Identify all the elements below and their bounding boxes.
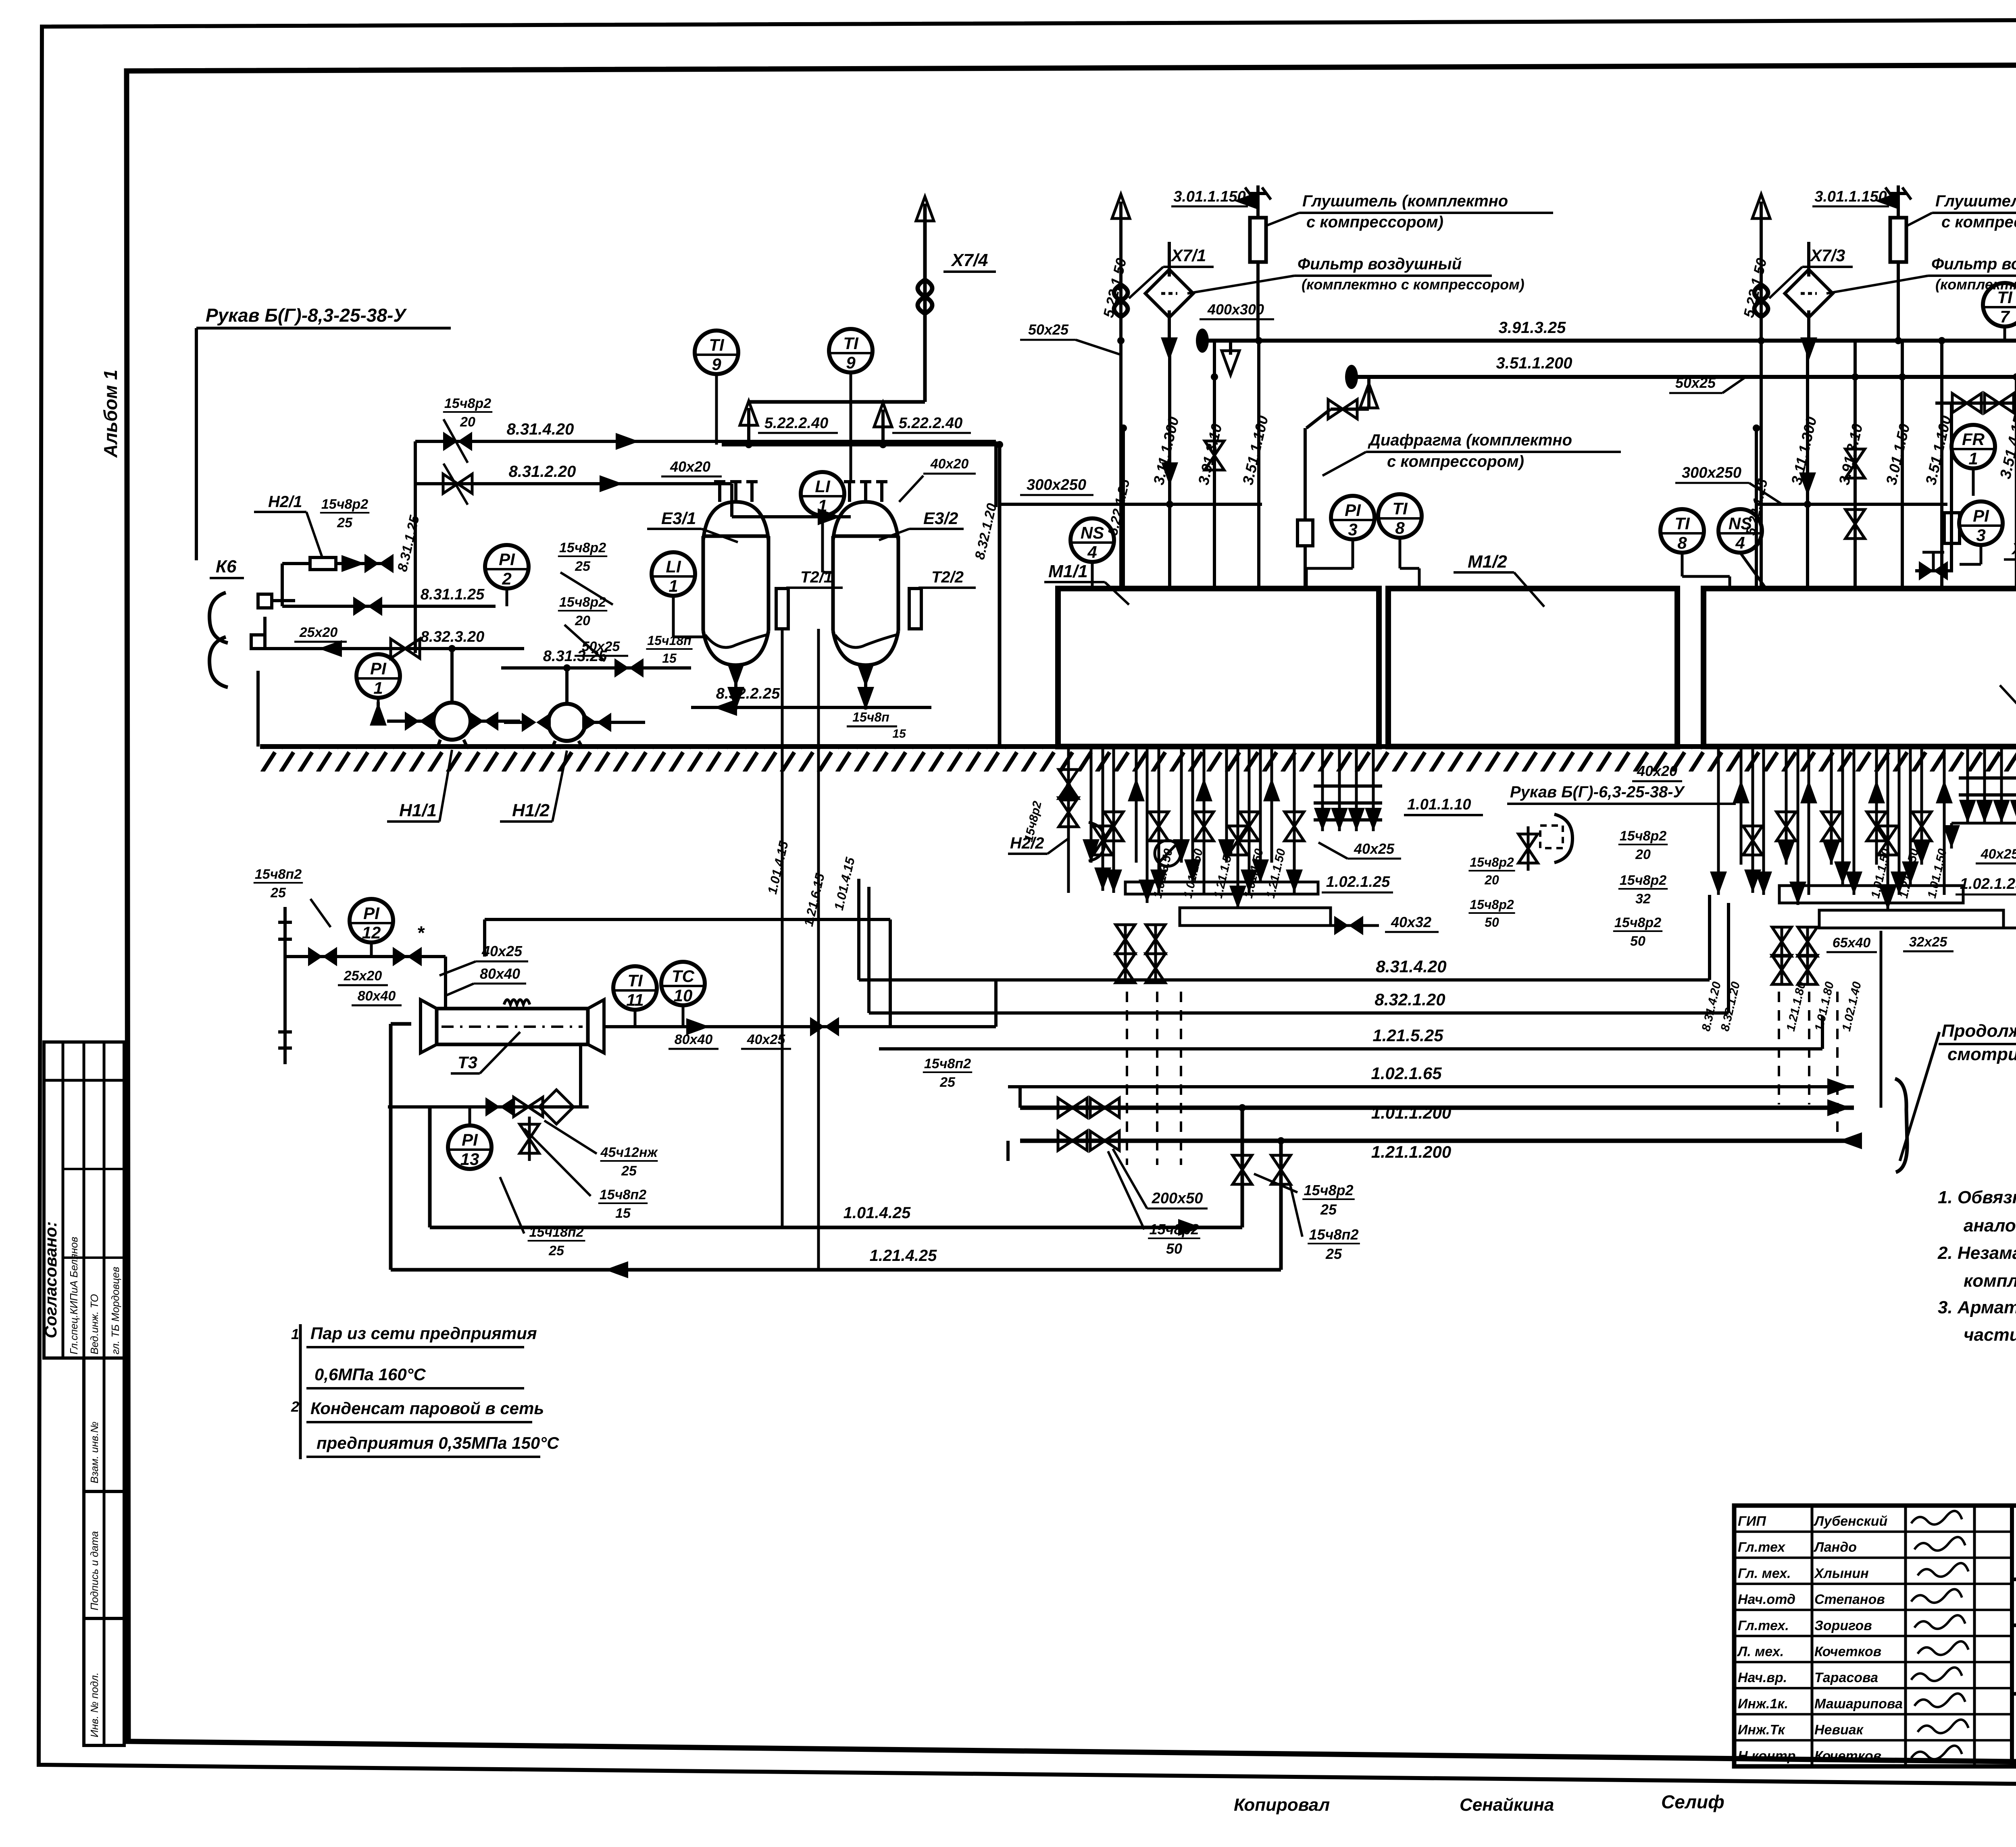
svg-text:М1/1: М1/1: [1048, 562, 1088, 581]
svg-text:Вед.инж. ТО: Вед.инж. ТО: [88, 1294, 100, 1354]
svg-text:Конденсат паровой в сеть: Конденсат паровой в сеть: [310, 1399, 544, 1418]
svg-text:PI: PI: [1973, 506, 1989, 525]
svg-text:1.01.1.50: 1.01.1.50: [1181, 847, 1206, 900]
gauge small circle: [1155, 840, 1181, 866]
thermo TI8: [1378, 494, 1422, 538]
svg-text:Ландо: Ландо: [1813, 1540, 1857, 1555]
svg-text:8: 8: [1677, 533, 1687, 552]
steam line to T3: [285, 955, 446, 958]
svg-text:3: 3: [1976, 526, 1985, 545]
svg-text:Зоригов: Зоригов: [1814, 1618, 1872, 1633]
grid manifold 1.02.1.10: [1966, 747, 1969, 823]
pipe 8.32.2.25 from vessels to pumps: [691, 706, 931, 709]
svg-text:25: 25: [270, 885, 286, 901]
dashed drains down: [1126, 992, 1128, 1165]
pipe 1.21.4.25: [391, 1268, 1281, 1272]
svg-text:1. Обвязку компрессора поз.: 1. Обвязку компрессора поз. М1/2 выполни…: [1938, 1188, 2016, 1207]
pump H1/1: [433, 703, 471, 740]
M1/3 left instruments: [1660, 509, 1704, 553]
svg-text:15ч8р2: 15ч8р2: [559, 595, 606, 610]
svg-text:1.01.4.15: 1.01.4.15: [831, 855, 858, 911]
svg-text:4: 4: [1735, 533, 1745, 552]
gauge PI2: [485, 545, 529, 589]
svg-text:1.21.1.200: 1.21.1.200: [1371, 1142, 1452, 1161]
svg-text:Инж.Тк: Инж.Тк: [1738, 1722, 1785, 1738]
svg-text:Тарасова: Тарасова: [1814, 1670, 1878, 1685]
svg-text:15: 15: [892, 727, 906, 740]
svg-text:15ч8п2: 15ч8п2: [600, 1187, 646, 1202]
pipe 8.31.3.25: [501, 666, 653, 670]
svg-text:1.01.4.15: 1.01.4.15: [765, 839, 791, 895]
svg-text:Х7/3: Х7/3: [1810, 246, 1845, 265]
riser 5.22.1.50 with muffler X7/3: [1760, 202, 1763, 589]
svg-text:25х20: 25х20: [344, 968, 382, 984]
M1/3 risers: [1806, 339, 1809, 589]
svg-text:65х40: 65х40: [1833, 935, 1871, 951]
document control boxes (left margin): [84, 1358, 124, 1745]
svg-text:PI: PI: [499, 550, 515, 569]
svg-text:1.21.1.50: 1.21.1.50: [1264, 847, 1288, 900]
svg-text:Машарипова: Машарипова: [1814, 1696, 1903, 1712]
svg-text:25: 25: [939, 1075, 956, 1090]
svg-text:1.01.4.25: 1.01.4.25: [843, 1204, 911, 1222]
svg-text:5.22.2.40: 5.22.2.40: [764, 415, 828, 432]
double valves to drains: [1124, 926, 1127, 984]
svg-text:15ч8п: 15ч8п: [852, 710, 889, 724]
thermo TI11: [613, 966, 657, 1010]
suction duct 300x250 right: [1758, 503, 1947, 506]
level indicator LI1 on E3/1: [652, 552, 695, 596]
svg-text:3.91.3.10: 3.91.3.10: [1195, 422, 1225, 487]
svg-text:Нач.отд: Нач.отд: [1738, 1592, 1795, 1607]
svg-text:К6: К6: [216, 557, 237, 576]
approval stamp table (left margin): [44, 1042, 124, 1358]
pipe 1.01.1.200: [1020, 1106, 1854, 1110]
svg-text:15ч8п2: 15ч8п2: [924, 1056, 971, 1071]
svg-text:Пар из сети предприятия: Пар из сети предприятия: [310, 1324, 537, 1343]
svg-text:Фильтр воздушный: Фильтр воздушный: [1297, 255, 1462, 273]
svg-text:Х3: Х3: [2011, 540, 2016, 558]
svg-text:20: 20: [1484, 873, 1499, 887]
svg-text:Хлынин: Хлынин: [1814, 1566, 1869, 1581]
svg-text:Х7/4: Х7/4: [950, 250, 988, 270]
loop down-left: [389, 1024, 393, 1270]
discharge/drain manifold under M1/1: [1067, 747, 1070, 893]
svg-text:200х50: 200х50: [1152, 1190, 1203, 1207]
svg-text:50х25: 50х25: [1675, 374, 1716, 391]
svg-text:LI: LI: [666, 557, 681, 576]
riser 5.22.1.25: [1122, 428, 1125, 589]
svg-text:3: 3: [1348, 520, 1357, 539]
svg-text:25: 25: [621, 1163, 637, 1179]
svg-text:Е3/1: Е3/1: [661, 509, 696, 528]
svg-text:1.02.1.25: 1.02.1.25: [1960, 876, 2016, 892]
pipe 3.51.1.200: [1352, 375, 2016, 379]
svg-text:25: 25: [1325, 1246, 1342, 1262]
svg-text:32: 32: [1635, 891, 1651, 907]
svg-text:Т3: Т3: [458, 1053, 477, 1072]
svg-text:Т2/2: Т2/2: [931, 568, 964, 586]
junction dots: [1117, 337, 1125, 344]
svg-text:5.22.2.40: 5.22.2.40: [899, 415, 962, 432]
svg-text:Глушитель (комплектно: Глушитель (комплектно: [1935, 192, 2016, 210]
level indicator LI1 on E3/2: [801, 472, 844, 516]
svg-text:1: 1: [669, 576, 678, 595]
svg-text:3.51.1.100: 3.51.1.100: [1239, 414, 1271, 487]
svg-text:15ч8р2: 15ч8р2: [1614, 915, 1661, 930]
svg-text:3. Арматура со знаком * пр: 3. Арматура со знаком * предусмотрена в: [1938, 1298, 2016, 1317]
svg-text:8.31.2.20: 8.31.2.20: [509, 463, 576, 480]
svg-text:предприятия 0,35МПа 150°С: предприятия 0,35МПа 150°С: [317, 1433, 559, 1452]
svg-text:Кочетков: Кочетков: [1814, 1644, 1881, 1660]
svg-text:TI: TI: [1392, 499, 1408, 518]
svg-text:Лубенский: Лубенский: [1813, 1514, 1888, 1529]
gauge PI1: [356, 654, 400, 698]
control valve w/ actuator: [1919, 561, 1948, 580]
svg-text:Взам. инв.№: Взам. инв.№: [88, 1421, 100, 1483]
riser 5.22.1.50 with muffler X7/1: [1119, 202, 1123, 589]
gauge PI3: [1331, 496, 1375, 539]
svg-text:8.31.1.25: 8.31.1.25: [421, 586, 485, 603]
svg-text:50х25: 50х25: [1028, 321, 1069, 338]
svg-text:Согласовано:: Согласовано:: [41, 1221, 60, 1338]
relief arrows 5.22.2.40: [747, 408, 750, 445]
svg-text:Подпись и дата: Подпись и дата: [88, 1531, 100, 1610]
svg-text:15: 15: [662, 651, 677, 666]
pipe 8.32.1.20 (long): [869, 1011, 1729, 1015]
svg-text:3.01.1.150: 3.01.1.150: [1814, 188, 1887, 205]
svg-text:Продолжение трубопроводов: Продолжение трубопроводов: [1941, 1021, 2016, 1041]
extra drain stubs under M1/1: [1102, 747, 1104, 891]
svg-text:с компрессором): с компрессором): [1387, 453, 1524, 470]
svg-text:0,6МПа 160°С: 0,6МПа 160°С: [314, 1365, 426, 1384]
svg-text:Сенайкина: Сенайкина: [1460, 1795, 1554, 1815]
svg-text:9: 9: [846, 353, 856, 372]
vessel E3/2: [833, 502, 898, 540]
pipe 8.31.2.20: [415, 482, 732, 485]
svg-text:40х32: 40х32: [1391, 914, 1431, 930]
svg-text:Инв. № подл.: Инв. № подл.: [88, 1672, 100, 1737]
svg-text:15ч8п2: 15ч8п2: [255, 867, 302, 882]
svg-text:15ч8п2: 15ч8п2: [1309, 1226, 1358, 1243]
svg-text:Т2/1: Т2/1: [800, 568, 833, 586]
vessel top header lower line: [722, 443, 1000, 447]
M1/1 risers: [1168, 339, 1171, 589]
svg-text:ГИП: ГИП: [1738, 1514, 1766, 1529]
svg-text:PI: PI: [370, 659, 387, 678]
svg-text:7: 7: [2000, 307, 2010, 326]
regulator column X3: [1950, 403, 1953, 572]
pipe 8.31.4.20 (long): [859, 978, 1710, 982]
muffler right: [1890, 218, 1906, 262]
gauge PI13: [448, 1125, 492, 1169]
svg-text:1: 1: [373, 678, 383, 697]
svg-text:Гл.тех.: Гл.тех.: [1738, 1618, 1789, 1633]
svg-text:Н2/1: Н2/1: [268, 493, 302, 511]
pipe 8.31.4.20: [415, 440, 996, 443]
svg-text:TI: TI: [627, 971, 643, 990]
riser 3.51.4.150: [2015, 376, 2016, 589]
heat exchanger T2/2: [909, 589, 921, 629]
svg-text:50: 50: [1630, 934, 1645, 949]
svg-text:40х25: 40х25: [747, 1032, 786, 1047]
svg-text:3.51.4.150: 3.51.4.150: [1997, 406, 2016, 480]
orifice device: [1297, 520, 1313, 546]
svg-text:TI: TI: [1997, 288, 2013, 307]
svg-text:Альбом 1: Альбом 1: [100, 370, 121, 458]
svg-text:8.32.3.20: 8.32.3.20: [421, 628, 484, 645]
svg-text:40х20: 40х20: [670, 458, 710, 475]
svg-text:15ч18п2: 15ч18п2: [529, 1225, 583, 1240]
inline damper: [1944, 513, 1960, 543]
svg-text:8.31.4.20: 8.31.4.20: [507, 420, 574, 438]
svg-text:LI: LI: [815, 477, 831, 496]
T3 drain with trap: [579, 1044, 582, 1107]
svg-text:5.22.1.25: 5.22.1.25: [1743, 477, 1771, 537]
svg-text:1.01.1.80: 1.01.1.80: [1812, 980, 1837, 1033]
svg-text:1.01.1.10: 1.01.1.10: [1407, 796, 1471, 813]
vessel drains go down: [781, 629, 784, 1227]
thermo TI9 on E3/1: [695, 331, 738, 374]
heat exchanger T3: [437, 1009, 588, 1044]
svg-text:2. Незамаркированная арматура: 2. Незамаркированная арматура поставляет…: [1937, 1243, 2016, 1263]
compressor M1/1: [1058, 589, 1379, 747]
svg-text:32х25: 32х25: [1909, 934, 1948, 950]
suction duct 300x250: [1000, 503, 1262, 506]
svg-text:Нач.вр.: Нач.вр.: [1738, 1670, 1787, 1685]
svg-text:Рукав Б(Г)-8,3-25-38-У: Рукав Б(Г)-8,3-25-38-У: [206, 305, 407, 326]
svg-text:2: 2: [291, 1398, 299, 1415]
svg-text:8: 8: [1395, 518, 1405, 537]
svg-text:FR: FR: [1962, 430, 1985, 449]
svg-text:400х300: 400х300: [1207, 301, 1264, 318]
svg-text:1.02.1.65: 1.02.1.65: [1371, 1064, 1442, 1083]
svg-text:8.31.1.25: 8.31.1.25: [395, 514, 423, 573]
svg-text:8.31.4.20: 8.31.4.20: [1376, 957, 1446, 976]
svg-text:Степанов: Степанов: [1814, 1592, 1885, 1607]
left end check valves: [1058, 1098, 1087, 1117]
svg-text:15ч8р2: 15ч8р2: [1620, 873, 1666, 888]
svg-text:Гл.спец.КИПиА Белянов: Гл.спец.КИПиА Белянов: [68, 1237, 80, 1354]
svg-text:3.01.1.150: 3.01.1.150: [1173, 188, 1246, 205]
vessel E3/1: [703, 502, 768, 540]
svg-text:1.02.1.25: 1.02.1.25: [1326, 874, 1390, 890]
svg-text:Кочетков: Кочетков: [1814, 1748, 1881, 1764]
svg-text:8.32.2.25: 8.32.2.25: [716, 685, 780, 702]
svg-text:2: 2: [502, 569, 511, 588]
svg-text:3.01.1.50: 3.01.1.50: [1883, 422, 1913, 487]
svg-text:Л. мех.: Л. мех.: [1737, 1644, 1784, 1660]
svg-text:15ч8р2: 15ч8р2: [1304, 1182, 1353, 1198]
svg-text:NS: NS: [1081, 523, 1104, 542]
svg-text:Копировал: Копировал: [1234, 1795, 1330, 1815]
svg-text:10: 10: [674, 986, 693, 1005]
svg-text:Н1/1: Н1/1: [399, 801, 437, 820]
header riser 8.31.1.25: [414, 441, 417, 653]
svg-text:TC: TC: [672, 967, 695, 986]
floor line with hatching: [260, 744, 2016, 749]
drains down right: [1778, 992, 1780, 1104]
air filter (diamond) right: [1785, 270, 1833, 318]
svg-text:Гл.тех: Гл.тех: [1738, 1540, 1786, 1555]
svg-text:TI: TI: [709, 335, 725, 354]
riser from 8.31.4.20 to vessels: [994, 441, 998, 507]
svg-text:12: 12: [362, 923, 381, 942]
svg-text:М1/2: М1/2: [1468, 552, 1507, 572]
svg-text:25: 25: [337, 515, 353, 530]
svg-text:Н.контр: Н.контр: [1738, 1748, 1796, 1764]
svg-text:3.51.1.100: 3.51.1.100: [1922, 414, 1954, 487]
title block: [1734, 1506, 2016, 1766]
svg-text:15ч8р2: 15ч8р2: [559, 540, 606, 555]
svg-text:20: 20: [1635, 847, 1651, 862]
muffler (silencer): [1250, 218, 1266, 262]
pipe 1.21.5.25: [879, 1047, 1822, 1050]
pump H1/2: [548, 704, 585, 741]
svg-text:15ч8р2: 15ч8р2: [321, 497, 368, 512]
svg-text:8.32.1.20: 8.32.1.20: [972, 502, 1000, 561]
T3 outlet line: [604, 1025, 891, 1028]
svg-text:40х20: 40х20: [930, 456, 969, 472]
svg-text:Невиак: Невиак: [1814, 1722, 1864, 1738]
svg-text:20: 20: [460, 414, 475, 430]
svg-text:80х40: 80х40: [358, 988, 396, 1004]
svg-text:25: 25: [548, 1243, 564, 1258]
vent riser X7/4: [923, 204, 927, 402]
svg-text:(комплектно с компрессором): (комплектно с компрессором): [1302, 276, 1524, 293]
svg-text:300х250: 300х250: [1682, 464, 1741, 481]
svg-text:1.02.1.40: 1.02.1.40: [1840, 980, 1864, 1033]
svg-text:комплектно с оборудованием.: комплектно с оборудованием.: [1964, 1271, 2016, 1291]
pump discharge risers: [450, 649, 454, 703]
svg-text:50х25: 50х25: [582, 639, 621, 654]
svg-text:1: 1: [1968, 449, 1978, 468]
svg-text:PI: PI: [1345, 501, 1361, 520]
svg-text:Х7/1: Х7/1: [1170, 246, 1206, 265]
svg-text:Рукав Б(Г)-6,3-25-38-У: Рукав Б(Г)-6,3-25-38-У: [1510, 783, 1685, 801]
svg-text:15ч8р2: 15ч8р2: [1470, 855, 1514, 869]
svg-text:части проекта АТХ.: части проекта АТХ.: [1964, 1325, 2016, 1345]
svg-text:50: 50: [1166, 1240, 1182, 1257]
svg-text:аналогично обвязке компрессо: аналогично обвязке компрессоров поз. М1/…: [1964, 1216, 2016, 1235]
vent header upper line: [749, 400, 925, 404]
svg-text:1.21.5.25: 1.21.5.25: [1372, 1026, 1443, 1045]
svg-text:1: 1: [291, 1326, 299, 1342]
svg-text:1.01.1.50: 1.01.1.50: [1925, 847, 1949, 900]
svg-text:с компрессором): с компрессором): [1306, 213, 1443, 231]
svg-text:*: *: [417, 922, 425, 943]
svg-text:Гл. мех.: Гл. мех.: [1738, 1566, 1791, 1581]
svg-text:TI: TI: [1674, 514, 1690, 533]
gauge PI3 right: [1959, 501, 2003, 545]
svg-text:300х250: 300х250: [1027, 476, 1086, 493]
discharge/drain manifold under M1/3: [1717, 747, 1720, 895]
compressor M1/3: [1704, 589, 2016, 747]
svg-text:гл. ТБ Мордовцев: гл. ТБ Мордовцев: [109, 1267, 121, 1354]
svg-text:Селиф: Селиф: [1661, 1791, 1724, 1812]
svg-text:Фильтр воздушный: Фильтр воздушный: [1931, 255, 2016, 273]
svg-text:PI: PI: [363, 904, 380, 923]
svg-text:40х20: 40х20: [1637, 763, 1677, 779]
temp controller TC10: [661, 962, 705, 1005]
condensate return loop: [485, 918, 890, 921]
grid manifold 1.01.1.10: [1321, 747, 1324, 831]
svg-text:Инж.1к.: Инж.1к.: [1738, 1696, 1788, 1712]
continuation bracket right: [1895, 1079, 1907, 1172]
svg-text:PI: PI: [462, 1130, 478, 1149]
double valves to drains right: [1781, 928, 1783, 984]
collector boxes under M1/1: [1125, 882, 1318, 894]
svg-text:8.32.1.20: 8.32.1.20: [1375, 990, 1445, 1009]
svg-text:40х25: 40х25: [1354, 840, 1395, 857]
heat exchanger T2/1: [776, 589, 788, 629]
svg-text:1.21.1.80: 1.21.1.80: [1784, 980, 1808, 1033]
legend bottom-left: steam and condensate: [299, 1324, 302, 1459]
svg-text:25х20: 25х20: [299, 625, 338, 640]
svg-text:20: 20: [575, 613, 590, 628]
svg-text:45ч12нж: 45ч12нж: [600, 1145, 658, 1160]
svg-text:TI: TI: [843, 334, 859, 353]
svg-text:13: 13: [460, 1150, 479, 1169]
starter NS4 on M1/1: [1070, 518, 1114, 562]
svg-text:9: 9: [712, 355, 721, 374]
svg-text:40х25: 40х25: [1981, 847, 2016, 862]
pipe 3.91.3.25: [1202, 339, 2016, 343]
svg-text:11: 11: [626, 990, 644, 1009]
riser valves to drain lines: [1241, 1109, 1244, 1227]
svg-text:40х25: 40х25: [481, 943, 523, 959]
svg-text:1.01.1.200: 1.01.1.200: [1371, 1103, 1452, 1122]
svg-text:Диафрагма (комплектно: Диафрагма (комплектно: [1368, 431, 1572, 449]
svg-text:15ч8р2: 15ч8р2: [1470, 897, 1514, 912]
svg-text:смотри лист 7: смотри лист 7: [1947, 1044, 2016, 1064]
svg-text:80х40: 80х40: [480, 965, 520, 982]
collector boxes under M1/3: [1779, 886, 1963, 903]
svg-text:15ч8р2: 15ч8р2: [444, 396, 491, 411]
thermo TI7: [1983, 283, 2016, 327]
svg-text:50: 50: [1485, 915, 1499, 930]
svg-text:4: 4: [1087, 543, 1097, 562]
pipe 8.32.3.20: [295, 647, 524, 650]
svg-text:1.21.4.25: 1.21.4.25: [870, 1247, 937, 1265]
svg-text:25: 25: [1320, 1201, 1337, 1218]
pipe 1.21.1.200: [1020, 1139, 1854, 1143]
svg-text:3.51.1.200: 3.51.1.200: [1496, 354, 1572, 372]
svg-text:Глушитель (комплектно: Глушитель (комплектно: [1302, 192, 1508, 210]
extra drain stubs under M1/3: [1752, 747, 1754, 893]
pipe 8.31.1.25: [347, 605, 496, 608]
gauge PI12: [350, 899, 393, 942]
air filter (diamond): [1145, 270, 1193, 318]
pipe 1.02.1.65: [1008, 1085, 1854, 1088]
svg-text:с компрессором): с компрессором): [1941, 213, 2016, 231]
pipe 1.01.4.25: [430, 1226, 1242, 1229]
svg-text:Е3/2: Е3/2: [923, 509, 958, 528]
svg-text:15: 15: [615, 1206, 631, 1221]
thermo TI9 on E3/2: [829, 329, 873, 372]
svg-text:15ч18п: 15ч18п: [647, 633, 691, 648]
svg-text:25: 25: [575, 559, 591, 574]
compressor M1/2: [1388, 589, 1677, 747]
svg-text:3.91.3.25: 3.91.3.25: [1499, 319, 1566, 337]
svg-text:15ч8р2: 15ч8р2: [1620, 828, 1666, 844]
flow recorder FR1: [1951, 425, 1995, 468]
svg-text:Н1/2: Н1/2: [512, 801, 550, 820]
svg-text:80х40: 80х40: [675, 1032, 713, 1047]
